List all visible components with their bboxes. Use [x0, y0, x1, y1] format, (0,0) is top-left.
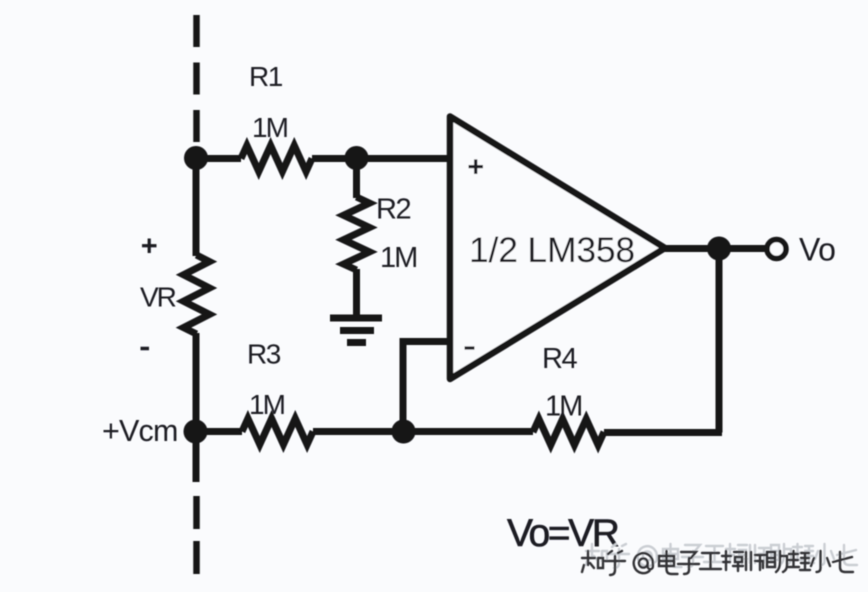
op-amp minus input sign: [465, 346, 475, 349]
wire dashed reference line bottom: [193, 496, 200, 575]
svg-text:R1: R1: [249, 61, 283, 92]
svg-text:1M: 1M: [249, 389, 285, 420]
resistor R3 zigzag: [242, 419, 313, 445]
op-amp U1 triangle: [450, 117, 665, 380]
ground symbol: [330, 318, 382, 343]
svg-text:R4: R4: [542, 343, 577, 375]
resistor R1 zigzag: [241, 146, 312, 172]
wire left vertical node A to VR: [193, 152, 200, 256]
wire +Vcm node to R3: [196, 428, 242, 435]
svg-text:Vo=VR: Vo=VR: [507, 512, 619, 555]
node feedback junction dot: [392, 420, 416, 444]
wire op-amp output to terminal: [662, 245, 767, 252]
watermark Zhihu dark layer: [582, 551, 853, 575]
node A junction dot: [184, 146, 208, 170]
svg-text:+Vcm: +Vcm: [102, 414, 178, 448]
wire R3 to R4: [313, 428, 533, 435]
wire R2 to ground: [353, 269, 360, 318]
resistor R4 zigzag: [533, 419, 604, 445]
minus sign of source VR: [141, 347, 150, 351]
svg-text:1M: 1M: [545, 391, 581, 423]
svg-text:R3: R3: [247, 339, 281, 370]
terminal Vo open circle: [767, 240, 786, 259]
wire output down to R4: [719, 249, 722, 433]
wire node A to R1: [196, 155, 241, 162]
plus sign of source VR: [142, 239, 157, 254]
svg-text:1M: 1M: [380, 242, 416, 274]
wire R1 to node B and op-amp plus input: [312, 155, 450, 162]
op-amp plus input sign: [469, 159, 484, 174]
resistor R2 zigzag: [344, 197, 370, 270]
wire node B down to R2: [353, 158, 360, 198]
node output junction dot: [707, 237, 731, 261]
svg-text:Vo: Vo: [799, 232, 835, 268]
svg-text:1/2 LM358: 1/2 LM358: [469, 230, 635, 270]
node +Vcm junction dot: [184, 420, 208, 444]
wire feedback from inverting input: [403, 342, 450, 433]
wire VR to +Vcm node: [193, 333, 200, 482]
node B junction dot: [345, 146, 369, 170]
source VR zigzag: [184, 255, 210, 334]
watermark Zhihu ghost layer: [586, 544, 857, 568]
wire dashed reference line top: [193, 15, 200, 143]
svg-text:R2: R2: [376, 194, 410, 226]
svg-text:1M: 1M: [252, 112, 288, 143]
wire R4 to output corner: [604, 429, 722, 436]
svg-text:VR: VR: [140, 282, 176, 313]
